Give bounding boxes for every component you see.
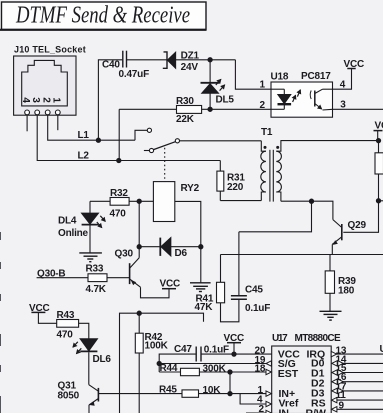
resistor R30 22K xyxy=(119,96,201,125)
U17 left pin numbers xyxy=(255,345,266,413)
wire L2 from pin3 xyxy=(37,115,220,161)
power VCC (U18) xyxy=(344,59,365,70)
svg-text:470: 470 xyxy=(57,330,74,341)
wire row19 to pin19 xyxy=(159,363,272,365)
svg-text:Online: Online xyxy=(58,228,89,239)
ground (R39) xyxy=(320,311,342,320)
wire L1 from pin2 xyxy=(48,115,135,140)
svg-text:10K: 10K xyxy=(203,385,222,396)
svg-text:R/W: R/W xyxy=(306,407,327,413)
zener DZ1 24V xyxy=(163,50,200,73)
svg-text:2: 2 xyxy=(259,404,265,413)
diode D6 xyxy=(139,238,201,259)
svg-text:U18: U18 xyxy=(271,72,289,83)
power VCC (R43) xyxy=(29,303,57,323)
svg-text:VCC: VCC xyxy=(160,279,181,290)
svg-text:PC817: PC817 xyxy=(301,71,331,82)
svg-text:MT8880CE: MT8880CE xyxy=(295,333,342,344)
wire L1 step to switch xyxy=(135,130,147,140)
ground (relay chain) xyxy=(190,283,211,292)
LED DL4 Online xyxy=(58,201,105,253)
svg-text:J10 TEL_Socket: J10 TEL_Socket xyxy=(14,45,86,55)
svg-text:R32: R32 xyxy=(110,188,128,199)
junction row1 xyxy=(228,392,232,396)
junction row19 xyxy=(157,361,161,365)
wire R31 to T1 bottom left xyxy=(220,200,261,202)
svg-text:1: 1 xyxy=(50,97,61,103)
wire to U18 pin1 xyxy=(235,60,271,89)
wire T1 top right to VCC rail xyxy=(281,140,379,142)
transistor Q31 8050 xyxy=(58,381,99,413)
svg-text:R43: R43 xyxy=(57,310,75,321)
svg-text:2: 2 xyxy=(40,97,51,103)
svg-text:24V: 24V xyxy=(181,62,199,73)
left sheet border xyxy=(0,232,2,413)
power VCC (right edge) xyxy=(374,121,383,141)
svg-text:4.7K: 4.7K xyxy=(86,284,107,295)
wire right edge down xyxy=(378,141,380,153)
wire row18 down to row1 xyxy=(229,372,231,394)
resistor (right edge, cut) xyxy=(375,153,383,174)
svg-text:0.47uF: 0.47uF xyxy=(119,69,150,80)
power VCC (U17) xyxy=(224,333,245,354)
junction R42 top xyxy=(137,311,141,315)
resistor R43 470 xyxy=(57,310,79,341)
transistor Q29 xyxy=(332,220,366,255)
transistor Q30 xyxy=(115,247,170,298)
resistor R41 47K xyxy=(195,255,239,322)
svg-text:220: 220 xyxy=(227,182,244,193)
wire U18 pin4 to VCC xyxy=(333,69,352,90)
svg-text:18: 18 xyxy=(255,363,266,374)
wire DZ1 to junction xyxy=(176,59,236,61)
wire R30 to U18 pin2 xyxy=(202,108,271,110)
wire R43 to DL6 xyxy=(79,323,89,338)
junction above DL5 xyxy=(208,58,212,62)
wire R30 left down to L2 xyxy=(118,109,120,160)
wire U18 pin3 out xyxy=(333,108,383,110)
svg-text:VCC: VCC xyxy=(344,59,365,70)
switch contact 2 xyxy=(144,148,154,152)
power VCC (Q30) xyxy=(160,279,181,290)
junction pin20/VCC xyxy=(232,352,236,356)
svg-text:D6: D6 xyxy=(175,248,188,259)
U17 pin arrows left xyxy=(266,361,271,413)
wire down to D6 row xyxy=(138,201,140,246)
junction VCC rail xyxy=(376,139,380,143)
junction DL5 anode xyxy=(208,107,212,111)
junction D6 right xyxy=(199,245,203,249)
svg-text:47K: 47K xyxy=(195,302,214,313)
relay RY2 xyxy=(153,182,199,222)
long wire IN- feedback xyxy=(120,313,204,413)
svg-text:22K: 22K xyxy=(176,114,195,125)
U17 right pin numbers xyxy=(336,345,347,411)
junction D6 left xyxy=(137,245,141,249)
switch contact 1 xyxy=(147,128,151,132)
ground (DL4) xyxy=(79,253,102,262)
wire stub off right edge xyxy=(379,200,383,202)
wire pin4 stub xyxy=(26,115,28,132)
U17 pin arrows right xyxy=(331,351,343,412)
resistor R42 100K xyxy=(135,313,168,413)
net label Q30-B xyxy=(37,269,88,280)
svg-text:T1: T1 xyxy=(261,127,273,138)
svg-text:R30: R30 xyxy=(176,96,194,107)
resistor R39 180 xyxy=(325,255,356,312)
resistor R31 220 xyxy=(217,161,245,201)
svg-text:470: 470 xyxy=(110,209,127,220)
wire Q31 base row xyxy=(98,393,139,395)
svg-text:180: 180 xyxy=(338,285,355,296)
svg-text:U: U xyxy=(380,344,383,355)
svg-text:Q29: Q29 xyxy=(348,220,367,231)
wire C47 left to rows xyxy=(159,354,196,372)
svg-text:Q30: Q30 xyxy=(115,249,134,260)
resistor R33 4.7K xyxy=(86,264,130,296)
capacitor C40 xyxy=(102,51,149,80)
svg-text:U17: U17 xyxy=(272,333,288,344)
dotted link to relay xyxy=(164,148,166,182)
svg-text:DL6: DL6 xyxy=(93,354,112,365)
svg-text:4: 4 xyxy=(20,97,31,103)
svg-text:DL5: DL5 xyxy=(216,95,235,106)
svg-text:C45: C45 xyxy=(245,285,263,296)
capacitor C47 xyxy=(174,344,229,362)
junction right edge xyxy=(376,199,380,203)
switch contact 3 xyxy=(175,139,179,143)
connector J10 TEL_Socket xyxy=(14,45,86,116)
wire down to ground xyxy=(200,247,202,283)
wire switch to T1 xyxy=(180,140,262,142)
LED DL6 xyxy=(73,339,112,385)
wire Vref loop xyxy=(240,394,267,404)
wire pin1 stub xyxy=(57,115,59,130)
svg-text:1: 1 xyxy=(260,80,266,91)
resistor 10K row1 xyxy=(139,385,272,397)
resistor R32 470 xyxy=(90,188,153,220)
svg-text:C47: C47 xyxy=(174,344,192,355)
U17 right pins xyxy=(337,354,383,409)
switch lever xyxy=(154,142,176,150)
wire RY2 right lead xyxy=(175,201,201,246)
svg-text:EST: EST xyxy=(278,368,299,380)
wire T1 bottom right to Q29 collector xyxy=(281,201,333,219)
svg-text:DTMF Send & Receive: DTMF Send & Receive xyxy=(15,3,190,29)
svg-text:0.1uF: 0.1uF xyxy=(245,303,270,314)
junction row18 xyxy=(228,370,232,374)
wire emitter rail xyxy=(221,254,383,256)
junction R32/RY2 xyxy=(137,199,141,203)
svg-text:2: 2 xyxy=(260,100,266,111)
transformer T1 xyxy=(261,127,282,202)
optocoupler U18 PC817 xyxy=(260,71,347,117)
wire row2 (IN-) xyxy=(246,412,272,413)
wire resistor to Q29 base xyxy=(343,174,378,232)
svg-text:9: 9 xyxy=(339,401,345,412)
wire C47 right to pin20 xyxy=(201,353,272,355)
svg-text:L2: L2 xyxy=(78,151,90,162)
svg-text:8050: 8050 xyxy=(58,391,80,402)
svg-text:RY2: RY2 xyxy=(181,183,200,194)
wire L1 to C40 xyxy=(98,60,122,140)
svg-text:L1: L1 xyxy=(78,130,90,141)
capacitor C45 xyxy=(231,232,270,314)
resistor 300K row18 xyxy=(159,364,272,376)
svg-text:IN-: IN- xyxy=(279,407,294,413)
svg-text:100K: 100K xyxy=(145,341,169,352)
svg-text:300K: 300K xyxy=(203,364,227,375)
svg-text:DL4: DL4 xyxy=(58,216,77,227)
title block xyxy=(0,2,207,30)
svg-text:R33: R33 xyxy=(86,264,104,275)
junction on L2 xyxy=(117,158,121,162)
junction C45 tap xyxy=(309,199,313,203)
junction on L1 xyxy=(96,138,100,142)
svg-text:3: 3 xyxy=(30,97,41,103)
IC U17 MT8880CE xyxy=(272,333,341,413)
LED DL5 xyxy=(201,60,235,110)
wire C45 top to collector node xyxy=(239,201,312,232)
wire C40 to DZ1 xyxy=(127,59,167,61)
